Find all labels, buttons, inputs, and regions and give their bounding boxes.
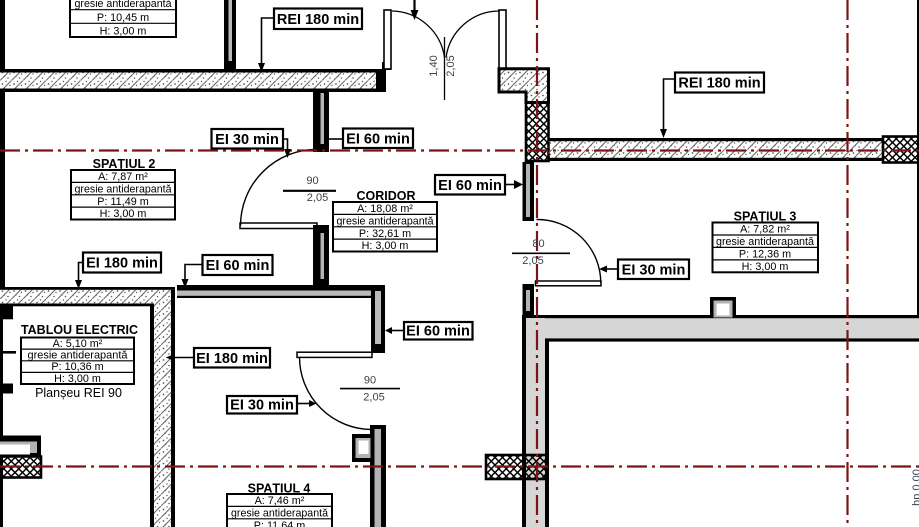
shaft box spatiul3 <box>710 297 736 318</box>
svg-text:A: 7,82 m²: A: 7,82 m² <box>740 224 790 236</box>
svg-text:P: 12,36 m: P: 12,36 m <box>739 248 791 260</box>
table spatiul3 <box>713 223 819 273</box>
svg-text:EI 60 min: EI 60 min <box>406 324 470 340</box>
door post spatiul2 lower <box>313 225 329 286</box>
dim 80/2,05 spatiul3 door <box>512 238 570 267</box>
wall bottom-left hatched band <box>0 287 175 306</box>
svg-text:P: 10,45 m: P: 10,45 m <box>97 12 149 24</box>
svg-text:2,05: 2,05 <box>522 255 543 267</box>
table spatiul4 <box>227 494 332 527</box>
table top-left room <box>70 0 176 37</box>
door jamb right (double door) <box>499 10 506 69</box>
svg-text:A: 18,08 m²: A: 18,08 m² <box>357 203 413 215</box>
svg-text:A: 7,87 m²: A: 7,87 m² <box>98 171 148 183</box>
svg-text:gresie antiderapantă: gresie antiderapantă <box>337 216 434 228</box>
label EI 60 min spatiul4 wall <box>385 322 473 340</box>
centerline horizontal lower <box>0 465 919 467</box>
svg-text:1,40: 1,40 <box>428 55 440 76</box>
wall left middle <box>0 92 5 287</box>
wall right hatched band <box>549 138 884 161</box>
svg-text:gresie antiderapantă: gresie antiderapantă <box>716 236 814 248</box>
wall pier crosshatch left <box>0 457 41 478</box>
svg-text:EI 60 min: EI 60 min <box>206 258 270 274</box>
wall vertical hatched <box>150 290 175 527</box>
svg-text:SPAȚIUL 2: SPAȚIUL 2 <box>93 157 156 171</box>
svg-text:H: 3,00 m: H: 3,00 m <box>54 373 101 385</box>
svg-text:A: 5,10 m²: A: 5,10 m² <box>53 338 103 350</box>
svg-text:2,05: 2,05 <box>363 392 384 404</box>
door leaf spatiul3 <box>536 281 602 286</box>
label EI 60 min left <box>182 255 273 288</box>
label EI 180 min wall <box>166 348 270 368</box>
svg-text:2,05: 2,05 <box>307 192 328 204</box>
wall divider top room <box>224 0 236 69</box>
door post spatiul2 upper <box>313 91 329 152</box>
door leaf spatiul4 <box>297 352 372 357</box>
door arc spatiul4 <box>300 357 373 429</box>
door leaf left wall <box>0 436 41 457</box>
svg-text:EI 60 min: EI 60 min <box>346 132 410 148</box>
table spatiul2 <box>71 170 175 220</box>
door arc left <box>392 11 445 58</box>
svg-text:2,05: 2,05 <box>445 55 457 76</box>
svg-text:gresie antiderapantă: gresie antiderapantă <box>75 184 172 196</box>
table tablou electric <box>21 338 134 385</box>
dim 90/2,05 spatiul4 door <box>340 375 400 404</box>
svg-text:90: 90 <box>306 175 318 187</box>
label EI 60 min corridor <box>435 175 523 195</box>
svg-text:H: 3,00 m: H: 3,00 m <box>362 240 409 252</box>
label EI 180 min left <box>75 253 161 290</box>
door jamb spatiul3 lower <box>523 284 535 316</box>
door arc spatiul2 <box>241 149 318 226</box>
svg-text:gresie antiderapantă: gresie antiderapantă <box>28 350 128 362</box>
shaft box spatiul4 <box>352 434 374 462</box>
label EI 30 min top <box>212 129 292 158</box>
svg-text:REI 180 min: REI 180 min <box>678 76 760 92</box>
svg-text:H: 3,00 m: H: 3,00 m <box>100 208 147 220</box>
door post spatiul4 lower <box>370 425 386 527</box>
svg-text:80: 80 <box>532 238 544 250</box>
door arc spatiul3 <box>537 219 601 283</box>
label REI 180 min top <box>258 9 362 73</box>
label EI 30 min spatiul3 <box>599 260 689 280</box>
svg-text:SPAȚIUL 4: SPAȚIUL 4 <box>248 482 311 496</box>
door centre dimension line <box>444 37 446 100</box>
svg-text:TABLOU ELECTRIC: TABLOU ELECTRIC <box>21 323 138 337</box>
wall corridor south vertical <box>371 285 385 353</box>
svg-text:gresie antiderapantă: gresie antiderapantă <box>75 0 172 10</box>
svg-text:hp 0,00: hp 0,00 <box>911 469 919 506</box>
svg-text:H: 3,00 m: H: 3,00 m <box>742 261 789 273</box>
svg-text:EI 30 min: EI 30 min <box>215 132 279 148</box>
wall left top <box>0 0 5 70</box>
svg-text:P: 32,61 m: P: 32,61 m <box>359 228 411 240</box>
svg-text:P: 10,36 m: P: 10,36 m <box>51 361 103 373</box>
wall right edge <box>917 0 919 318</box>
door jamb spatiul3 upper <box>523 162 535 221</box>
svg-text:SPAȚIUL 3: SPAȚIUL 3 <box>734 210 797 224</box>
svg-text:90: 90 <box>364 375 376 387</box>
table coridor <box>333 202 437 252</box>
door arc right <box>446 11 499 58</box>
centerline horizontal upper <box>0 149 919 151</box>
centerline vertical left <box>536 0 538 527</box>
wall left lower pieces <box>0 306 16 527</box>
wall pier crosshatch on gray wall <box>486 455 547 479</box>
wall pier crosshatch <box>526 103 549 162</box>
svg-text:EI 180 min: EI 180 min <box>86 256 158 272</box>
svg-text:Planșeu REI 90: Planșeu REI 90 <box>35 386 122 400</box>
wall corridor south horizontal <box>177 285 385 298</box>
svg-text:H: 3,00 m: H: 3,00 m <box>100 25 147 37</box>
wall top hatched band <box>0 62 391 92</box>
svg-text:EI 30 min: EI 30 min <box>622 263 686 279</box>
label EI 60 min top <box>329 129 413 149</box>
label EI 30 min spatiul4 <box>227 396 317 414</box>
wall gray bottom-right <box>522 315 919 527</box>
svg-text:gresie antiderapantă: gresie antiderapantă <box>231 508 328 520</box>
dim 90/2,05 spatiul2 door <box>283 175 336 204</box>
leader arrow from above onto door arc <box>411 0 419 20</box>
door jamb left (double door) <box>384 10 391 69</box>
svg-text:REI 180 min: REI 180 min <box>277 12 359 28</box>
svg-text:EI 30 min: EI 30 min <box>230 398 294 414</box>
door leaf spatiul2 <box>240 223 317 229</box>
svg-text:EI 60 min: EI 60 min <box>438 178 502 194</box>
label REI 180 min right <box>660 73 764 139</box>
svg-text:CORIDOR: CORIDOR <box>356 189 415 203</box>
svg-text:P: 11,64 m: P: 11,64 m <box>254 520 305 527</box>
wall L-shaped hatched <box>499 69 549 103</box>
svg-text:EI 180 min: EI 180 min <box>196 351 268 367</box>
svg-text:A: 7,46 m²: A: 7,46 m² <box>255 495 305 507</box>
centerline vertical right <box>846 0 848 527</box>
wall pier crosshatch right <box>883 137 919 163</box>
svg-text:P: 11,49 m: P: 11,49 m <box>97 196 148 208</box>
